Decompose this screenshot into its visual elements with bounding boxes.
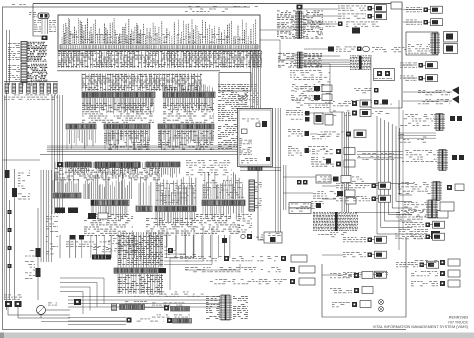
sensor BR1 xyxy=(336,182,391,189)
sensor BR6 xyxy=(343,251,387,258)
labels col x238 xyxy=(238,84,258,107)
small comps row5 xyxy=(168,248,196,257)
labels under N2 xyxy=(84,206,133,236)
relay box RB0 xyxy=(219,73,251,91)
module N1 xyxy=(53,172,81,198)
module M8 xyxy=(146,162,180,178)
sensor RC4 xyxy=(354,88,378,93)
module N2 xyxy=(84,173,131,206)
j-cluster RJ2 xyxy=(402,150,464,171)
module M3 xyxy=(66,124,96,150)
sensor R4 xyxy=(400,62,438,69)
box D2 xyxy=(316,175,331,183)
sensor BR8 xyxy=(343,271,387,278)
j-cluster RJ4 xyxy=(396,210,448,220)
sensor row SR1 xyxy=(180,255,307,262)
comp cluster RC1 xyxy=(374,69,395,82)
horn H1 xyxy=(418,87,459,96)
j-column JC1 xyxy=(277,5,323,39)
labels tier3 xyxy=(218,124,248,149)
connector bar MB1 xyxy=(92,247,112,260)
wire L-bends BL xyxy=(60,278,104,314)
connector S1 xyxy=(29,12,49,19)
sensor FB2 xyxy=(330,287,373,294)
comp D10 xyxy=(241,234,263,240)
sensor R2 xyxy=(406,19,443,26)
wire drops tier5 xyxy=(60,235,230,258)
labels corner TL xyxy=(12,4,27,7)
labels above ECM xyxy=(185,6,258,12)
black bars N6 xyxy=(55,208,78,214)
horn H2 xyxy=(418,96,459,105)
pin block PB1 xyxy=(350,56,371,70)
sensor TR2 xyxy=(338,13,387,20)
wire right vlines xyxy=(399,100,403,250)
wire top drop xyxy=(33,4,41,37)
wire ECM drops band1 xyxy=(57,51,262,71)
sensor FB3 xyxy=(332,301,371,308)
sensor row SR3 xyxy=(210,278,315,285)
sensor row SR2 xyxy=(185,266,315,273)
sensor RB1 xyxy=(411,259,460,266)
inline connectors L1 xyxy=(5,169,31,300)
sensor RB2 xyxy=(411,270,460,277)
connector under VIMS xyxy=(248,167,262,171)
connector P1 xyxy=(42,36,48,41)
wire vbus V3 xyxy=(284,165,286,210)
sensor RC2 xyxy=(291,85,332,92)
comp TR5 xyxy=(352,2,402,34)
sensor D5 xyxy=(313,190,356,204)
sensor QB2 xyxy=(288,129,326,139)
pin grid D8 xyxy=(313,212,358,237)
connector CP3 xyxy=(74,299,81,305)
wire right vbus xyxy=(251,50,261,170)
wire CN drops xyxy=(7,30,45,86)
wire bus HB1 xyxy=(40,146,260,155)
sensor R5 xyxy=(400,75,438,82)
sensor BR7 xyxy=(396,261,439,268)
wire stack feeds xyxy=(164,228,212,265)
wire left vbus xyxy=(41,95,62,262)
labels tier4 xyxy=(186,160,232,175)
j-column JC5 xyxy=(404,200,454,218)
wire TR6 xyxy=(304,48,328,50)
module N5 xyxy=(202,172,245,205)
module box VIMS U2 xyxy=(238,109,273,167)
wire right top xyxy=(403,10,452,102)
labels D11 xyxy=(238,214,252,232)
module M4 xyxy=(104,124,150,150)
comp pair D4 xyxy=(297,180,308,185)
sensor RB3 xyxy=(411,280,460,287)
sensor MR4 xyxy=(312,148,355,155)
wire TR xyxy=(303,9,338,24)
wire bus HB2 xyxy=(68,292,220,308)
wire D links xyxy=(258,169,333,240)
wire D pair xyxy=(240,168,281,170)
connector bar CB1 xyxy=(82,92,155,123)
connector pair BL xyxy=(4,295,70,319)
module M7 xyxy=(95,162,140,176)
wire left bus xyxy=(3,90,40,310)
wire top bus xyxy=(33,4,402,109)
connector bar CB2 xyxy=(163,84,215,122)
j-column JC2 xyxy=(278,52,322,68)
sensor RC3 xyxy=(291,94,332,101)
sensor BR5 xyxy=(343,236,387,243)
sensor BR4 xyxy=(402,233,445,240)
sensor MR5 xyxy=(312,160,355,167)
wire RH2 xyxy=(371,55,402,108)
labels tier5 xyxy=(46,216,140,254)
label boxes D7 xyxy=(289,203,311,214)
module N3 xyxy=(136,177,152,212)
sensor TR1 xyxy=(338,5,387,12)
wire bus RH xyxy=(304,60,350,66)
box frame F1 xyxy=(322,237,406,317)
sensor QB1 xyxy=(286,110,333,125)
wire SR loop xyxy=(170,258,240,290)
module N4 xyxy=(155,176,196,211)
sensor QB4 xyxy=(311,157,331,167)
connector row R1 xyxy=(4,82,58,100)
sensor D6 xyxy=(311,201,324,209)
j-cluster RJ1 xyxy=(400,114,462,131)
module R3 xyxy=(406,32,458,56)
labels mid col xyxy=(218,84,248,121)
sensor row TR6 xyxy=(328,46,406,52)
connector block D1 xyxy=(249,180,262,211)
labels tier4 band xyxy=(55,162,160,180)
connector block CN2 xyxy=(8,64,48,83)
wire RJ1 xyxy=(398,133,436,143)
connector bar CB5 xyxy=(127,315,192,324)
module stack MS bar xyxy=(114,268,166,273)
sensor MR3 xyxy=(321,130,366,138)
connector bar CB4 xyxy=(112,301,190,311)
sensor MR1 xyxy=(333,100,392,107)
footer bar xyxy=(0,333,474,338)
j-cluster RJ3 xyxy=(398,182,464,201)
comps above LR1 xyxy=(70,235,227,243)
sensor BR3 xyxy=(402,221,445,228)
wire bus HB3 xyxy=(41,318,126,325)
module M5 xyxy=(158,124,214,150)
wire MR feeds xyxy=(304,104,333,135)
motor symbol M1 xyxy=(37,303,71,319)
inline connectors L2 xyxy=(25,208,41,300)
connector block CN1 xyxy=(8,42,47,63)
sensor FB1 xyxy=(330,272,388,279)
box frame F2 xyxy=(257,169,259,240)
sensor QB3 xyxy=(288,146,328,156)
sensor R1 xyxy=(406,6,443,13)
wire vbus V1 xyxy=(342,112,349,212)
label row LR1 xyxy=(66,242,110,247)
module D9 xyxy=(264,232,282,243)
wire RH links xyxy=(260,20,344,112)
module M6 xyxy=(57,162,91,175)
wire BR links xyxy=(322,186,343,275)
labels under JC2 xyxy=(290,70,332,108)
module stack MS lower xyxy=(118,274,163,294)
labels under N4 xyxy=(146,212,196,236)
title block text xyxy=(373,316,469,330)
wire S1 pins xyxy=(34,19,56,34)
labels under N5 xyxy=(196,206,244,234)
wire RH hlines xyxy=(355,152,414,213)
cut symbols xyxy=(379,300,384,312)
wire vbus V2 xyxy=(276,108,281,238)
wire ECM drops band2 xyxy=(82,74,202,92)
j-column JC3 xyxy=(206,295,248,320)
sensor D3 xyxy=(333,176,364,183)
wire L bundle xyxy=(377,116,412,234)
module stack MS upper xyxy=(118,232,163,268)
sensor TR3 xyxy=(312,22,379,27)
sensor MR2 xyxy=(333,110,389,117)
j-cluster RJ5 xyxy=(395,229,440,239)
sensor BR2 xyxy=(336,195,391,202)
ECM module U1 xyxy=(58,15,260,51)
sensor RC5 xyxy=(351,100,388,106)
